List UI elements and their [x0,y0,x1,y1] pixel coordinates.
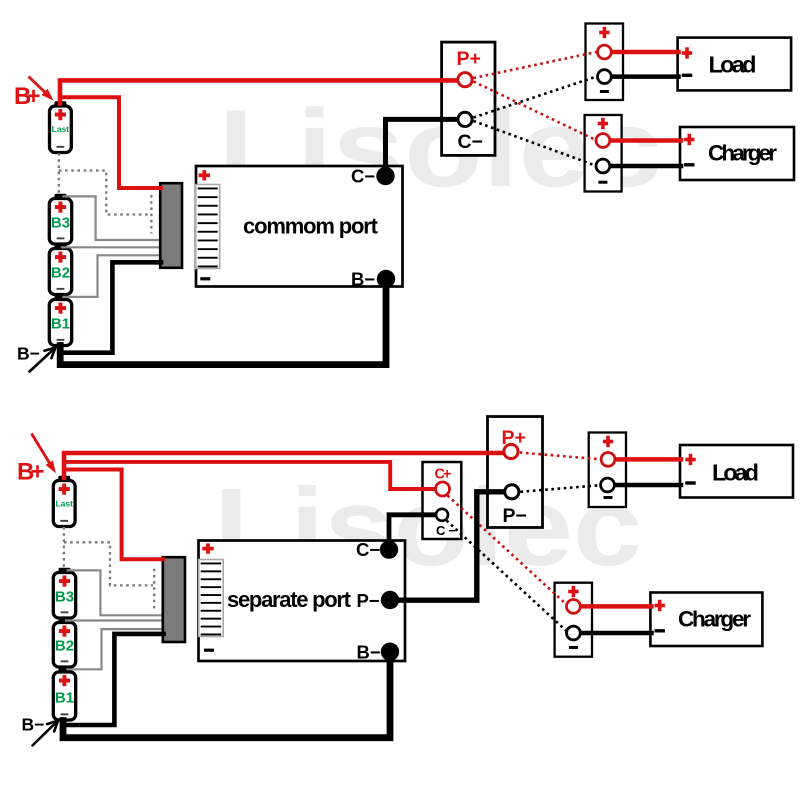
gray sense wire B3-/B2+ to connector (bottom) [66,619,164,621]
board + mark (bottom) [202,543,213,553]
battery cell Last (top stack) [50,101,72,152]
dotted red P+ to load+ (bottom) [520,453,600,460]
charger block black circle (bottom) [567,626,581,640]
board terminal dot P- (bottom) [381,591,399,609]
svg-text:separate port: separate port [227,587,352,612]
svg-text:B2: B2 [55,638,74,655]
board terminal dot B- (top) [377,270,395,288]
red wire B+ to connector (top) [61,97,161,188]
load block - (bottom) [604,496,613,499]
svg-text:B−: B− [17,344,40,364]
arrow B- (top) [30,348,56,372]
svg-text:B3: B3 [51,214,70,231]
svg-text:P+: P+ [457,48,481,70]
charger box (bottom) [650,593,762,647]
dotted red C+ to charger+ (bottom) [448,496,567,605]
charger block + (top) [598,118,608,129]
charger terminal block (bottom) [555,583,592,657]
charger block red circle (bottom) [567,600,581,614]
svg-text:B1: B1 [51,316,70,333]
dotted sense wire stub into connector (bottom) [153,569,155,609]
red wire charger block to Charger (bottom) [581,604,652,609]
P+/C- terminal block (top) [442,42,495,155]
load block red circle (top) [598,45,612,59]
svg-text:Charger: Charger [678,607,751,632]
battery cell Last (bottom stack) [53,476,75,527]
svg-text:B3: B3 [55,588,74,605]
dotted black C- to load- (top) [474,77,597,118]
black wire board C- to block C- (top) [386,119,457,174]
terminal circle P- (bottom block) [505,485,519,499]
red wire charger block to Charger (top) [611,138,681,143]
arrow B+ (top) [29,77,53,100]
gray sense wire B3-/B2+ to connector (top) [62,246,161,248]
battery cell B3 (bottom stack) [53,568,75,618]
dotted red P+ to load+ (top) [474,52,597,78]
battery cell B2 (top stack) [49,244,71,295]
charger block - (top) [598,181,607,184]
svg-text:Charger: Charger [708,141,777,166]
red wire load block to Load (top) [613,50,679,55]
svg-text:Last: Last [52,124,70,134]
red wire load block to Load (bottom) [615,457,681,462]
red wire B+ to C+ (bottom) [65,462,434,489]
svg-text:B−: B− [351,269,375,290]
charger terminal block (top) [585,115,622,192]
svg-text:C−: C− [351,166,375,187]
svg-text:B+: B+ [14,83,41,110]
load box + (bottom) [685,454,695,465]
load terminal block (bottom) [589,433,626,508]
load block + (bottom) [603,436,613,447]
svg-text:B−: B− [22,715,45,735]
dotted black P- to load- (bottom) [521,485,600,492]
terminal circle C- (bottom block) [436,509,448,521]
load block black circle (top) [598,70,612,84]
board pin header (bottom) [199,560,224,637]
load box (bottom) [680,445,793,498]
black wire board P- to block P- (bottom) [391,492,503,600]
svg-text:C−: C− [458,131,483,153]
gray sense wire B2-/B1+ to connector (bottom) [68,629,164,669]
P+/P- terminal block (bottom) [488,417,543,528]
board pin header (top) [196,185,220,269]
black wire B- sense to connector (bottom) [63,634,164,725]
battery cell B2 (bottom stack) [53,618,75,667]
black wire B- bus (bottom) [63,653,390,738]
black wire B- sense to connector (top) [60,262,161,352]
connector plug (bottom) [163,557,185,642]
black wire B- bus (top) [60,280,386,365]
board - mark (bottom) [204,649,214,652]
charger box - (top) [684,163,694,166]
battery cell B1 (bottom stack) [53,667,75,720]
charger box + (bottom) [655,600,665,611]
svg-text:commom port: commom port [243,214,379,239]
charger box (top) [680,127,794,180]
dotted sense wire branch (bottom) [64,542,153,585]
charger box + (top) [684,134,694,145]
svg-text:C+: C+ [435,467,452,483]
svg-text:B1: B1 [55,689,74,706]
dotted red P+ to charger+ (top) [474,82,595,140]
red wire B+ to P+ (top) [60,80,457,103]
BMS board (top, commom port) [196,166,403,287]
load box - (bottom) [685,481,695,484]
load block red circle (bottom) [601,453,615,467]
svg-text:B+: B+ [17,459,45,486]
terminal circle P+ (top block) [458,73,472,87]
dotted black C- to charger- (top) [474,121,595,165]
battery cell B1 (top stack) [49,295,71,346]
black wire charger block to Charger (bottom) [581,631,652,636]
terminal circle P+ (bottom block) [504,444,518,458]
dotted sense wire stub into connector (top) [150,195,152,234]
arrow B- (bottom) [33,721,59,746]
svg-text:Load: Load [712,460,759,486]
svg-text:B2: B2 [51,265,70,282]
svg-text:P−: P− [503,505,527,527]
charger box - (bottom) [655,629,665,632]
dotted black C- to charger- (bottom) [447,521,567,632]
load block - (top) [600,90,609,93]
board terminal dot C- (bottom) [380,540,398,558]
dotted sense wire Last- to B3+ (top) [58,153,60,195]
load block black circle (bottom) [601,478,615,492]
board + mark (top) [199,170,210,180]
svg-text:C−: C− [356,539,380,560]
BMS board (bottom, separate port) [199,541,406,662]
red wire B+ to connector (bottom) [65,470,164,560]
svg-text:P−: P− [357,590,380,611]
dotted sense wire Last- to B3+ (bottom) [63,527,65,569]
charger block black circle (top) [596,159,610,173]
gray sense wire B2-/B1+ to connector (top) [64,255,162,297]
charger block red circle (top) [596,134,610,148]
red wire B+ to P+ (bottom) [64,453,503,478]
connector plug (top) [160,183,182,268]
gray sense wire B3+ to connector (top) [64,196,162,240]
load terminal block (top) [586,24,624,101]
terminal circle C- (top block) [458,112,472,126]
load box (top) [678,38,792,91]
terminal circle C+ (bottom block) [436,482,450,496]
black wire board C- to block C- (bottom) [389,515,436,548]
board terminal dot B- (bottom) [381,643,399,661]
load block + (top) [599,27,609,38]
battery cell B3 (top stack) [49,194,71,244]
black wire charger block to Charger (top) [611,164,681,169]
load box - (top) [682,74,692,77]
charger block + (bottom) [568,586,578,597]
svg-text:Load: Load [709,52,757,78]
board - mark (top) [200,277,210,280]
dotted sense wire branch (top) [59,171,150,215]
charger block - (bottom) [569,646,578,649]
svg-text:Last: Last [55,498,73,508]
gray sense wire B3+ to connector (bottom) [68,570,164,615]
load box + (top) [682,47,692,58]
black wire load block to Load (top) [613,74,679,79]
board terminal dot C- (top) [376,167,394,185]
arrow B+ (bottom) [32,434,56,473]
C+/C- terminal block (bottom) [423,462,462,539]
svg-text:B−: B− [357,642,381,663]
black wire load block to Load (bottom) [615,483,681,488]
